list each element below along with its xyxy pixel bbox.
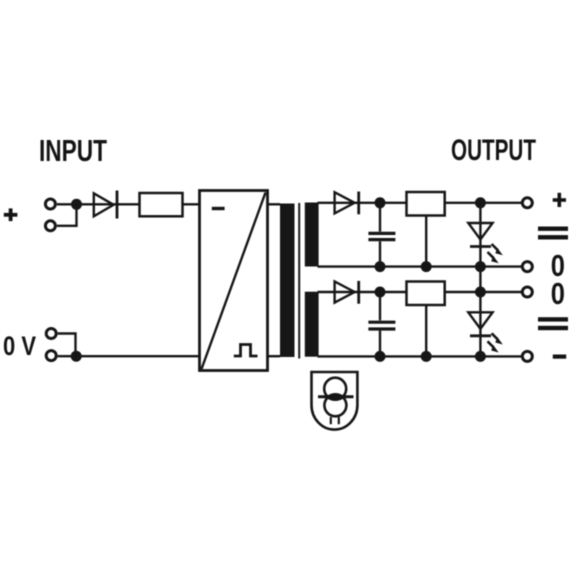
- node ch2 reg bottom: [421, 351, 432, 362]
- wire channel1 0 rail: [318, 265, 522, 267]
- transformer T1 secondary winding 2: [305, 292, 319, 357]
- LED2: [468, 312, 492, 329]
- wire LED2 branch: [479, 292, 481, 356]
- label DC bars ch2: [538, 317, 568, 321]
- wire 0V bottom rail to converter: [58, 355, 200, 357]
- label minus (output): [553, 355, 566, 359]
- wire converter to transformer top: [268, 203, 281, 205]
- capacitor C2: [368, 321, 395, 324]
- label square-wave inside converter: [234, 345, 258, 357]
- LED2 arrows: [488, 333, 503, 352]
- regulator U3 ch2: [407, 282, 445, 306]
- terminal output 0 (ch1): [522, 262, 532, 272]
- capacitor C1: [368, 232, 395, 235]
- node ch2 LED top: [475, 287, 486, 298]
- label minus inside converter: [212, 207, 225, 210]
- svg-text:OUTPUT: OUTPUT: [451, 134, 536, 167]
- node ch1 reg bottom: [421, 261, 432, 272]
- terminal output 0 (ch2): [522, 287, 532, 297]
- node ch1 LED bottom: [475, 261, 486, 272]
- label + (input polarity): [4, 208, 18, 221]
- fuse F1: [140, 193, 183, 216]
- node ch1 cap tap: [375, 197, 386, 208]
- isolation overlap fill: [327, 393, 343, 401]
- node ch2 cap bottom: [375, 351, 386, 362]
- diode D2 (rectifier ch1): [335, 192, 355, 213]
- wire channel2 minus rail: [318, 355, 522, 357]
- wire input top: [57, 203, 200, 205]
- node ch2 LED bottom: [475, 351, 486, 362]
- svg-text:0: 0: [551, 276, 565, 311]
- terminal 0V upper: [46, 329, 56, 339]
- isolation bar: [318, 395, 354, 398]
- LED1: [468, 223, 492, 240]
- wire regulator U2 tap: [425, 216, 427, 267]
- wire channel2 top rail: [318, 291, 522, 293]
- wire regulator U3 tap: [425, 305, 427, 356]
- wire channel1 top rail: [318, 202, 522, 204]
- transformer T1 secondary winding 1: [305, 203, 319, 267]
- isolation shield outline: [312, 372, 358, 430]
- wire converter to transformer bottom: [268, 355, 281, 357]
- wire LED1 branch: [479, 203, 481, 267]
- node ch1 LED top: [475, 197, 486, 208]
- terminal input + lower: [45, 221, 55, 231]
- terminal output minus: [522, 351, 532, 361]
- node input junction: [71, 199, 82, 210]
- node ch2 cap tap: [375, 287, 386, 298]
- isolation legs: [330, 417, 332, 424]
- capacitor C2 lead: [379, 292, 381, 320]
- svg-text:INPUT: INPUT: [39, 134, 107, 168]
- transformer T1 primary winding: [280, 204, 295, 358]
- wire converter diagonal: [202, 193, 266, 370]
- terminal input + upper: [45, 199, 55, 209]
- diode D3 (rectifier ch2): [335, 282, 355, 303]
- label + (output): [553, 193, 566, 207]
- node 0V junction: [71, 351, 82, 362]
- wire 0V upper terminal L-link: [58, 334, 76, 357]
- converter U1 (DC/DC chopper): [200, 191, 268, 371]
- diode D1 (input reverse protection): [94, 193, 114, 216]
- regulator U2 ch1: [407, 192, 445, 216]
- terminal 0V lower: [46, 351, 56, 361]
- capacitor C1 lead: [379, 203, 381, 232]
- terminal output +: [522, 198, 532, 208]
- isolation transformer circle lower: [324, 394, 346, 416]
- label DC bars ch1: [538, 227, 568, 231]
- wire link between 0 rails: [479, 267, 481, 292]
- node ch1 cap bottom: [375, 261, 386, 272]
- transformer T1 core: [298, 203, 300, 359]
- svg-text:0 V: 0 V: [3, 331, 36, 361]
- LED1 arrows: [488, 244, 503, 263]
- wire input lower terminal L-link: [57, 205, 77, 226]
- isolation transformer circle upper: [324, 378, 346, 400]
